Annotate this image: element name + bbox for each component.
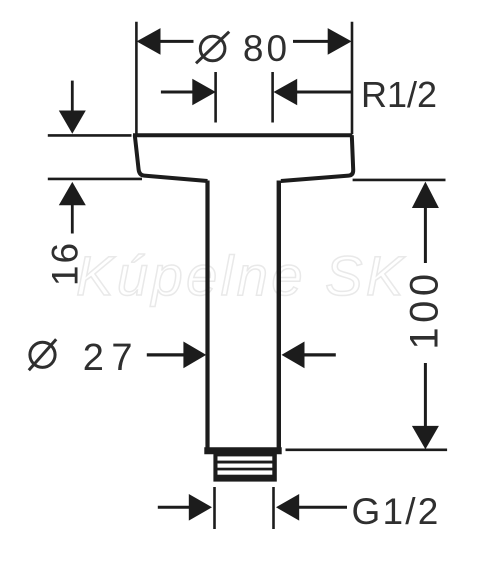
svg-text:80: 80 [243, 28, 290, 69]
thread stripe 3 [218, 470, 273, 474]
svg-text:G1/2: G1/2 [352, 491, 441, 532]
dim R1/2 tick right [271, 72, 274, 123]
dim O80 arrow left [137, 28, 161, 55]
flange left side and bottom edge [135, 135, 208, 181]
dim G1/2 arrow left [189, 494, 212, 521]
dim 16 extension line [48, 134, 132, 137]
dim O80 line right segment [293, 40, 329, 43]
dim 100 bottom extension line [286, 448, 448, 451]
dim O80 extension line left [135, 22, 138, 134]
dim 16 arrow down [59, 111, 86, 134]
flange top edge [133, 133, 352, 137]
dim 100 arrow up [412, 182, 439, 208]
ceiling line left segment [48, 178, 142, 181]
thread stripe 2 [218, 464, 273, 468]
ceiling line right segment [353, 179, 446, 182]
dim G1/2 line right segment [299, 506, 347, 509]
dim O80 diameter symbol [196, 32, 229, 64]
dim 100 arrow down [412, 426, 439, 449]
dim 100 upper shaft [424, 208, 427, 263]
dim O80 arrow right [328, 28, 352, 55]
pipe right wall [277, 181, 281, 450]
svg-text:16: 16 [45, 241, 86, 286]
dim R1/2 line right segment [297, 91, 351, 94]
dim 16 upper shaft [71, 81, 74, 112]
pipe bottom edge [204, 447, 281, 454]
svg-text:27: 27 [83, 337, 140, 379]
dim O27 line right segment [304, 353, 336, 356]
dim O27 line left segment [147, 353, 185, 356]
thread body [213, 454, 276, 482]
svg-text:R1/2: R1/2 [361, 74, 437, 115]
dim R1/2 tick left [214, 72, 217, 123]
dim R1/2 line left segment [161, 91, 194, 94]
dim G1/2 tick right [272, 487, 275, 529]
flange right side and bottom edge [281, 135, 353, 181]
dim G1/2 tick left [213, 487, 216, 529]
svg-text:Kúpelne SK: Kúpelne SK [76, 244, 407, 307]
thread stripe 1 [218, 456, 273, 460]
dim G1/2 arrow right [276, 494, 299, 521]
dim 16 lower shaft [71, 205, 74, 234]
dim G1/2 line left segment [158, 506, 190, 509]
dim O27 diameter symbol [29, 339, 56, 370]
dim 16 arrow up [59, 182, 86, 205]
dim R1/2 arrow right [274, 79, 298, 106]
dim O80 line left segment [159, 40, 194, 43]
dim O27 arrow left [183, 342, 206, 369]
pipe left wall [205, 181, 209, 450]
dim O27 arrow right [282, 342, 305, 369]
dim O80 extension line right [351, 22, 354, 134]
svg-text:100: 100 [403, 269, 447, 349]
dim R1/2 arrow left [192, 79, 216, 106]
dim 100 lower shaft [424, 363, 427, 427]
